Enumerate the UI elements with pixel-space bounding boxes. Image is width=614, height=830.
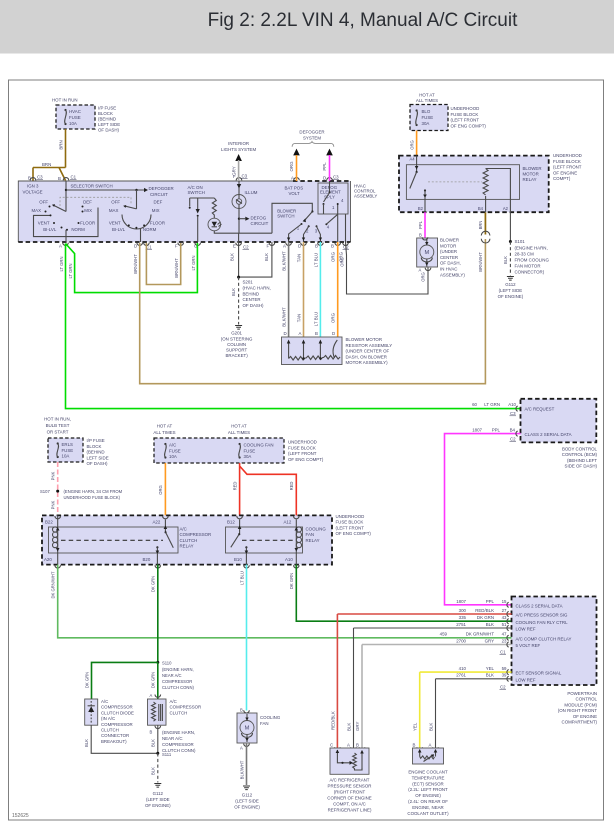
svg-text:300: 300 [459, 608, 467, 613]
svg-text:DEF: DEF [83, 200, 92, 205]
svg-text:PPL: PPL [418, 220, 423, 229]
svg-text:CLUTCH CONN): CLUTCH CONN) [162, 685, 194, 690]
svg-text:C3: C3 [242, 174, 248, 179]
svg-text:FLOOR: FLOOR [80, 221, 95, 226]
svg-text:B: B [240, 708, 243, 713]
svg-text:A10: A10 [285, 557, 293, 562]
svg-text:OF DASH,: OF DASH, [440, 261, 461, 266]
svg-text:335: 335 [459, 615, 467, 620]
svg-text:F: F [233, 174, 236, 179]
svg-text:TEMPERATURE: TEMPERATURE [412, 775, 445, 780]
svg-text:BLK: BLK [84, 739, 89, 747]
svg-text:VOLT: VOLT [289, 191, 300, 196]
svg-text:LT GRN: LT GRN [68, 264, 73, 279]
svg-text:ORG: ORG [289, 161, 294, 172]
svg-text:10A: 10A [62, 454, 70, 459]
svg-text:LT GRN: LT GRN [484, 402, 500, 407]
svg-text:BREAKOUT): BREAKOUT) [101, 739, 127, 744]
svg-text:C1: C1 [71, 175, 77, 180]
svg-text:A: A [59, 244, 62, 249]
svg-text:COOLANT OUTLET): COOLANT OUTLET) [407, 811, 449, 816]
svg-text:A2: A2 [503, 206, 509, 211]
svg-text:VOLTAGE: VOLTAGE [23, 190, 43, 195]
svg-text:ENGINE COOLANT: ENGINE COOLANT [408, 770, 448, 775]
svg-text:RESISTOR ASSEMBLY: RESISTOR ASSEMBLY [346, 343, 393, 348]
svg-text:LOW REF: LOW REF [516, 677, 536, 682]
svg-text:LT BLU: LT BLU [313, 253, 318, 267]
svg-text:BRN/WHT: BRN/WHT [478, 252, 483, 272]
svg-text:DK GRN/WHT: DK GRN/WHT [51, 571, 56, 598]
svg-text:(IN A/C: (IN A/C [101, 716, 115, 721]
svg-text:OF ENGINE: OF ENGINE [553, 170, 577, 175]
svg-text:B: B [331, 244, 334, 249]
svg-text:B: B [58, 176, 61, 181]
svg-text:(LEFT FRONT: (LEFT FRONT [451, 118, 480, 123]
svg-text:BLK/WHT: BLK/WHT [282, 251, 287, 271]
svg-text:DK GRN: DK GRN [84, 672, 89, 688]
svg-text:CLUTCH: CLUTCH [180, 538, 198, 543]
svg-text:GRY: GRY [485, 638, 495, 643]
svg-text:DASH, ON BLOWER: DASH, ON BLOWER [346, 354, 387, 359]
svg-text:CONTROL (BCM): CONTROL (BCM) [562, 452, 598, 457]
svg-text:C2: C2 [510, 437, 516, 442]
svg-text:B22: B22 [45, 520, 53, 525]
svg-text:A22: A22 [153, 520, 161, 525]
svg-text:UNDERHOOD FUSE BLOCK): UNDERHOOD FUSE BLOCK) [64, 495, 121, 500]
svg-text:C3: C3 [510, 411, 516, 416]
svg-text:(LEFT FRONT: (LEFT FRONT [288, 451, 317, 456]
svg-text:A/C COMP CLUTCH RELAY: A/C COMP CLUTCH RELAY [516, 636, 572, 641]
svg-text:COMPRESSOR: COMPRESSOR [162, 742, 194, 747]
svg-text:DK GRN: DK GRN [151, 576, 156, 592]
svg-text:CIRCUIT: CIRCUIT [251, 221, 269, 226]
svg-text:BLK: BLK [230, 253, 235, 261]
svg-text:(ENGINE HARN,: (ENGINE HARN, [162, 730, 195, 735]
svg-text:MIX: MIX [152, 208, 160, 213]
svg-text:(RIGHT FRONT: (RIGHT FRONT [334, 790, 366, 795]
svg-text:410: 410 [459, 666, 467, 671]
svg-text:ALL TIMES: ALL TIMES [416, 98, 438, 103]
svg-text:MOTOR: MOTOR [440, 243, 456, 248]
svg-text:10A: 10A [69, 121, 77, 126]
svg-text:VENT: VENT [109, 221, 121, 226]
svg-text:C3: C3 [37, 175, 43, 180]
svg-text:ERLS: ERLS [62, 442, 74, 447]
svg-text:27: 27 [502, 608, 507, 613]
svg-text:COMPT, ON A/C: COMPT, ON A/C [333, 802, 366, 807]
svg-text:BLK: BLK [151, 767, 156, 775]
svg-text:YEL: YEL [486, 666, 495, 671]
svg-text:HOT IN RUN: HOT IN RUN [52, 98, 78, 103]
svg-text:COMPT): COMPT) [553, 176, 571, 181]
svg-text:B12: B12 [227, 520, 235, 525]
svg-text:(LEFT SIDE: (LEFT SIDE [235, 799, 259, 804]
svg-text:FUSE BLOCK: FUSE BLOCK [451, 112, 479, 117]
svg-text:HOT IN RUN,: HOT IN RUN, [44, 417, 71, 422]
svg-text:BLOWER: BLOWER [440, 238, 459, 243]
svg-text:NORM: NORM [143, 227, 157, 232]
svg-text:ILLUM: ILLUM [245, 190, 258, 195]
svg-text:CIRCUIT: CIRCUIT [150, 192, 168, 197]
svg-text:B2: B2 [418, 206, 424, 211]
svg-text:OF ENGINE): OF ENGINE) [145, 803, 171, 808]
svg-text:MOTOR ASSEMBLY): MOTOR ASSEMBLY) [346, 360, 389, 365]
svg-text:FAN: FAN [306, 532, 315, 537]
svg-text:MIX: MIX [84, 208, 92, 213]
svg-text:M: M [245, 726, 250, 732]
svg-text:B: B [413, 743, 416, 748]
svg-text:DEFOG: DEFOG [251, 215, 267, 220]
svg-text:SWITCH: SWITCH [277, 213, 294, 218]
svg-text:ORG: ORG [331, 251, 336, 262]
svg-text:1807: 1807 [456, 599, 466, 604]
svg-text:BLK: BLK [486, 673, 494, 678]
svg-text:S101: S101 [515, 239, 526, 244]
svg-text:BI-LVL: BI-LVL [112, 227, 126, 232]
svg-text:23: 23 [502, 638, 507, 643]
svg-text:30A: 30A [422, 121, 430, 126]
svg-text:BI-LVL: BI-LVL [43, 227, 57, 232]
svg-text:A: A [240, 746, 243, 751]
svg-text:UNDERHOOD: UNDERHOOD [336, 514, 365, 519]
svg-text:60: 60 [472, 402, 477, 407]
svg-text:CLUTCH: CLUTCH [170, 710, 188, 715]
svg-text:FAN MOTOR: FAN MOTOR [515, 263, 541, 268]
svg-text:(LEFT FRONT: (LEFT FRONT [336, 525, 365, 530]
svg-text:A/C REFRIGERANT: A/C REFRIGERANT [329, 778, 369, 783]
svg-text:PPL: PPL [492, 427, 501, 432]
svg-text:IGN 3: IGN 3 [27, 184, 39, 189]
svg-text:A/C: A/C [169, 443, 176, 448]
svg-text:A10: A10 [508, 402, 516, 407]
svg-text:SUPPORT: SUPPORT [226, 348, 247, 353]
svg-text:(ON RIGHT FRONT: (ON RIGHT FRONT [558, 708, 598, 713]
svg-text:(LEFT FRONT: (LEFT FRONT [553, 165, 582, 170]
svg-text:FUSE: FUSE [69, 115, 81, 120]
svg-text:OF DASH): OF DASH) [98, 128, 120, 133]
svg-text:COMPRESSOR: COMPRESSOR [101, 722, 133, 727]
svg-text:UNDERHOOD: UNDERHOOD [451, 106, 480, 111]
svg-text:ORG: ORG [158, 485, 163, 495]
svg-text:TAN: TAN [297, 254, 302, 262]
svg-text:INTERIOR: INTERIOR [228, 141, 249, 146]
svg-text:COOLING: COOLING [306, 527, 327, 532]
svg-text:A: A [299, 331, 302, 336]
svg-text:UNDERHOOD: UNDERHOOD [553, 153, 582, 158]
svg-text:B: B [315, 331, 318, 336]
svg-text:B: B [419, 233, 422, 238]
svg-text:RED: RED [289, 482, 294, 491]
svg-text:D: D [284, 331, 287, 336]
svg-text:SWITCH: SWITCH [188, 190, 205, 195]
svg-text:FUSE: FUSE [422, 115, 434, 120]
svg-text:A: A [291, 176, 294, 181]
svg-text:DK GRN: DK GRN [151, 672, 156, 688]
svg-text:POWERTRAIN: POWERTRAIN [567, 691, 597, 696]
svg-text:MOTOR: MOTOR [523, 171, 539, 176]
svg-text:RELAY: RELAY [306, 538, 320, 543]
svg-text:OF ENGINE: OF ENGINE [573, 714, 597, 719]
svg-text:BLO: BLO [422, 109, 431, 114]
svg-text:OF ENGINE): OF ENGINE) [415, 793, 441, 798]
svg-text:G201: G201 [231, 331, 242, 336]
svg-text:A/C: A/C [170, 699, 177, 704]
svg-text:BRN: BRN [59, 140, 64, 149]
svg-text:BRACKET): BRACKET) [225, 353, 248, 358]
svg-text:GRY: GRY [355, 721, 360, 731]
svg-text:OF ENG COMPT): OF ENG COMPT) [336, 531, 372, 536]
svg-text:(LEFT SIDE: (LEFT SIDE [146, 797, 170, 802]
svg-text:BLK: BLK [486, 622, 494, 627]
svg-text:OF ENG COMPT): OF ENG COMPT) [451, 123, 487, 128]
svg-text:B4: B4 [510, 427, 516, 432]
svg-text:(LEFT SIDE: (LEFT SIDE [499, 288, 523, 293]
svg-text:C1: C1 [500, 650, 506, 655]
svg-text:2700: 2700 [456, 638, 466, 643]
svg-text:C2: C2 [500, 685, 506, 690]
svg-text:A/C: A/C [180, 527, 187, 532]
svg-text:MAX: MAX [109, 208, 119, 213]
svg-text:LT GRN: LT GRN [59, 257, 64, 272]
svg-text:OF ENG COMPT): OF ENG COMPT) [288, 457, 324, 462]
svg-text:LT BLU: LT BLU [313, 312, 318, 326]
svg-text:PPL: PPL [486, 599, 495, 604]
svg-text:COOLING: COOLING [260, 715, 281, 720]
svg-text:B4: B4 [478, 206, 484, 211]
svg-text:CENTER: CENTER [440, 255, 458, 260]
svg-text:LEFT SIDE: LEFT SIDE [98, 122, 120, 127]
svg-text:1807: 1807 [472, 427, 482, 432]
svg-text:F: F [175, 244, 178, 249]
svg-text:(ENGINE HARN,: (ENGINE HARN, [515, 245, 548, 250]
svg-text:A: A [419, 268, 422, 273]
svg-text:B: B [150, 730, 153, 735]
svg-text:PPL: PPL [322, 162, 327, 171]
svg-text:DEFOGGER: DEFOGGER [149, 186, 174, 191]
svg-text:A: A [347, 743, 350, 748]
svg-text:REFRIGERANT LINE): REFRIGERANT LINE) [328, 808, 372, 813]
svg-text:BEHIND: BEHIND [243, 291, 260, 296]
svg-text:UNDERHOOD: UNDERHOOD [288, 440, 317, 445]
svg-text:A4: A4 [410, 157, 416, 162]
svg-text:BLK: BLK [151, 739, 156, 747]
svg-text:BLOCK: BLOCK [87, 444, 102, 449]
svg-text:(UNDER CENTER OF: (UNDER CENTER OF [346, 349, 390, 354]
svg-text:(ECT) SENSOR: (ECT) SENSOR [412, 781, 443, 786]
svg-text:COOLING FAN RLY CTRL: COOLING FAN RLY CTRL [516, 620, 569, 625]
svg-text:S110: S110 [162, 661, 172, 666]
svg-text:LIGHTS SYSTEM: LIGHTS SYSTEM [221, 147, 256, 152]
svg-text:COMPRESSOR: COMPRESSOR [101, 705, 133, 710]
svg-text:OF DASH): OF DASH) [87, 461, 109, 466]
svg-text:DK GRN: DK GRN [289, 573, 294, 589]
svg-text:LT BLU: LT BLU [239, 571, 244, 585]
svg-text:LOW REF: LOW REF [516, 627, 536, 632]
svg-text:A/C PRESS SENSOR SIG: A/C PRESS SENSOR SIG [516, 613, 569, 618]
svg-text:D: D [323, 176, 326, 181]
svg-text:5 VOLT REF: 5 VOLT REF [516, 643, 541, 648]
svg-text:OF DASH): OF DASH) [243, 303, 265, 308]
svg-text:51: 51 [502, 622, 507, 627]
svg-text:47: 47 [502, 632, 507, 637]
svg-text:OFF: OFF [39, 200, 48, 205]
svg-text:59: 59 [502, 666, 507, 671]
svg-text:CLUTCH DIODE: CLUTCH DIODE [101, 710, 134, 715]
svg-text:NEAR A/C: NEAR A/C [162, 736, 183, 741]
svg-text:COMPARTMENT): COMPARTMENT) [562, 720, 598, 725]
svg-text:FROM COOLING: FROM COOLING [515, 257, 550, 262]
svg-text:LEFT SIDE: LEFT SIDE [87, 455, 109, 460]
svg-text:30A: 30A [244, 454, 252, 459]
svg-text:(BEHIND: (BEHIND [87, 450, 105, 455]
svg-text:G112: G112 [242, 793, 253, 798]
svg-text:BULB TEST: BULB TEST [46, 423, 70, 428]
svg-text:HVAC: HVAC [69, 109, 81, 114]
svg-text:ECT SENSOR SIGNAL: ECT SENSOR SIGNAL [516, 671, 562, 676]
svg-text:BLK/WHT: BLK/WHT [239, 760, 244, 779]
svg-text:BLK: BLK [231, 288, 236, 296]
svg-text:BLOWER: BLOWER [523, 166, 542, 171]
svg-text:DEFOGGER: DEFOGGER [299, 130, 324, 135]
svg-text:NORM: NORM [71, 227, 85, 232]
svg-text:ASSEMBLY): ASSEMBLY) [440, 272, 465, 277]
svg-text:BLK: BLK [347, 723, 352, 731]
svg-text:BAT POS: BAT POS [285, 186, 304, 191]
svg-text:SIDE OF DASH): SIDE OF DASH) [565, 464, 598, 469]
svg-text:ENGINE, NEAR: ENGINE, NEAR [412, 805, 443, 810]
svg-text:HOT AT: HOT AT [419, 93, 435, 98]
svg-text:DK GRN: DK GRN [477, 615, 494, 620]
svg-text:ORG: ORG [331, 312, 336, 323]
svg-text:HOT AT: HOT AT [157, 424, 173, 429]
svg-text:A: A [429, 743, 432, 748]
svg-text:CLUTCH: CLUTCH [101, 728, 119, 733]
svg-text:A12: A12 [284, 520, 292, 525]
svg-text:ORG: ORG [409, 140, 414, 150]
svg-text:RELAY: RELAY [523, 177, 537, 182]
svg-text:S201: S201 [243, 280, 254, 285]
svg-text:COMPRESSOR: COMPRESSOR [162, 679, 192, 684]
svg-text:152625: 152625 [12, 813, 29, 819]
svg-text:COLUMN: COLUMN [227, 342, 246, 347]
svg-text:OF ENGINE): OF ENGINE) [234, 805, 260, 810]
svg-text:M: M [424, 250, 429, 256]
svg-text:459: 459 [440, 632, 448, 637]
svg-text:BLK: BLK [503, 256, 508, 264]
svg-text:CONNECTOR: CONNECTOR [101, 733, 129, 738]
svg-text:HOT AT: HOT AT [231, 424, 247, 429]
svg-text:BLK: BLK [264, 253, 269, 261]
svg-text:YEL: YEL [413, 722, 418, 731]
svg-text:S107: S107 [40, 489, 50, 494]
svg-text:(HVAC HARN,: (HVAC HARN, [243, 286, 271, 291]
svg-text:(2.2L: LEFT FRONT: (2.2L: LEFT FRONT [408, 787, 448, 792]
svg-text:RED: RED [232, 482, 237, 491]
svg-text:ORG: ORG [339, 257, 344, 267]
svg-text:MAX: MAX [32, 208, 42, 213]
svg-text:BRN: BRN [42, 162, 51, 167]
svg-text:FUSE BLOCK: FUSE BLOCK [336, 520, 364, 525]
svg-text:CONNECTOR): CONNECTOR) [515, 269, 545, 274]
svg-text:CLASS 2 SERIAL DATA: CLASS 2 SERIAL DATA [525, 432, 572, 437]
svg-text:A: A [150, 693, 153, 698]
svg-text:CLASS 2 SERIAL DATA: CLASS 2 SERIAL DATA [516, 604, 563, 609]
svg-text:B20: B20 [143, 557, 151, 562]
svg-text:(ENGINE HARN, 34 CM FROM: (ENGINE HARN, 34 CM FROM [64, 489, 123, 494]
svg-text:(2.4L: ON REAR OF: (2.4L: ON REAR OF [408, 799, 448, 804]
svg-text:COMPRESSOR: COMPRESSOR [180, 532, 212, 537]
svg-text:DEF: DEF [154, 200, 163, 205]
svg-text:CENTER: CENTER [243, 297, 261, 302]
svg-text:OR START: OR START [47, 430, 69, 435]
svg-text:FUSE BLOCK: FUSE BLOCK [288, 445, 316, 450]
svg-text:Fig 2: 2.2L VIN 4, Manual A/C: Fig 2: 2.2L VIN 4, Manual A/C Circuit [208, 10, 518, 31]
svg-text:PNK: PNK [51, 471, 56, 480]
svg-text:A/C: A/C [101, 699, 108, 704]
svg-text:G112: G112 [505, 282, 516, 287]
svg-text:LT GRN: LT GRN [191, 256, 196, 271]
svg-text:MODULE (PCM): MODULE (PCM) [564, 702, 597, 707]
svg-text:OF ENGINE): OF ENGINE) [498, 294, 524, 299]
svg-text:OFF: OFF [111, 200, 120, 205]
svg-text:CONTROL: CONTROL [576, 697, 598, 702]
svg-text:CORNER OF ENGINE: CORNER OF ENGINE [327, 796, 371, 801]
svg-text:(UNDER: (UNDER [440, 249, 457, 254]
svg-text:C3: C3 [333, 175, 339, 180]
svg-text:C: C [330, 743, 333, 748]
svg-text:SYSTEM: SYSTEM [303, 135, 321, 140]
svg-text:A20: A20 [44, 557, 52, 562]
svg-text:BODY CONTROL: BODY CONTROL [562, 447, 598, 452]
svg-text:DK GRN/WHT: DK GRN/WHT [466, 632, 495, 637]
svg-text:PRESSURE SENSOR: PRESSURE SENSOR [328, 784, 372, 789]
svg-text:S111: S111 [162, 752, 172, 757]
svg-text:C2: C2 [243, 245, 249, 250]
svg-text:IN HVAC: IN HVAC [440, 267, 457, 272]
svg-text:ORG: ORG [421, 272, 426, 282]
svg-text:TAN: TAN [297, 314, 302, 322]
svg-text:VENT: VENT [38, 221, 50, 226]
svg-text:BLOWER MOTOR: BLOWER MOTOR [346, 337, 383, 342]
svg-text:B10: B10 [234, 557, 242, 562]
svg-text:BRN: BRN [478, 221, 483, 230]
svg-text:(BEHIND LEFT: (BEHIND LEFT [567, 458, 597, 463]
svg-text:COOLING FAN: COOLING FAN [244, 443, 274, 448]
svg-text:(BEHIND: (BEHIND [98, 117, 116, 122]
svg-text:A/C REQUEST: A/C REQUEST [525, 406, 555, 411]
svg-text:2761: 2761 [456, 673, 466, 678]
svg-text:10A: 10A [169, 454, 177, 459]
svg-text:SELECTOR SWITCH: SELECTOR SWITCH [71, 184, 113, 189]
svg-text:FUSE BLOCK: FUSE BLOCK [553, 159, 581, 164]
svg-text:FAN: FAN [260, 721, 269, 726]
svg-text:15: 15 [502, 599, 507, 604]
svg-text:COMPRESSOR: COMPRESSOR [170, 705, 202, 710]
svg-text:I/P FUSE: I/P FUSE [98, 106, 116, 111]
svg-text:D: D [332, 331, 335, 336]
svg-text:I/P FUSE: I/P FUSE [87, 438, 105, 443]
svg-text:BLK: BLK [429, 723, 434, 731]
svg-text:ASSEMBLY: ASSEMBLY [354, 194, 377, 199]
svg-text:RELAY: RELAY [180, 544, 194, 549]
svg-text:FLOOR: FLOOR [150, 221, 165, 226]
svg-text:(ON STEERING: (ON STEERING [221, 337, 253, 342]
svg-text:BLK/WHT: BLK/WHT [282, 307, 287, 327]
svg-text:FUSE: FUSE [169, 448, 181, 453]
svg-text:2751: 2751 [456, 622, 466, 627]
svg-text:G112: G112 [153, 791, 164, 796]
svg-text:PNK: PNK [51, 500, 56, 509]
